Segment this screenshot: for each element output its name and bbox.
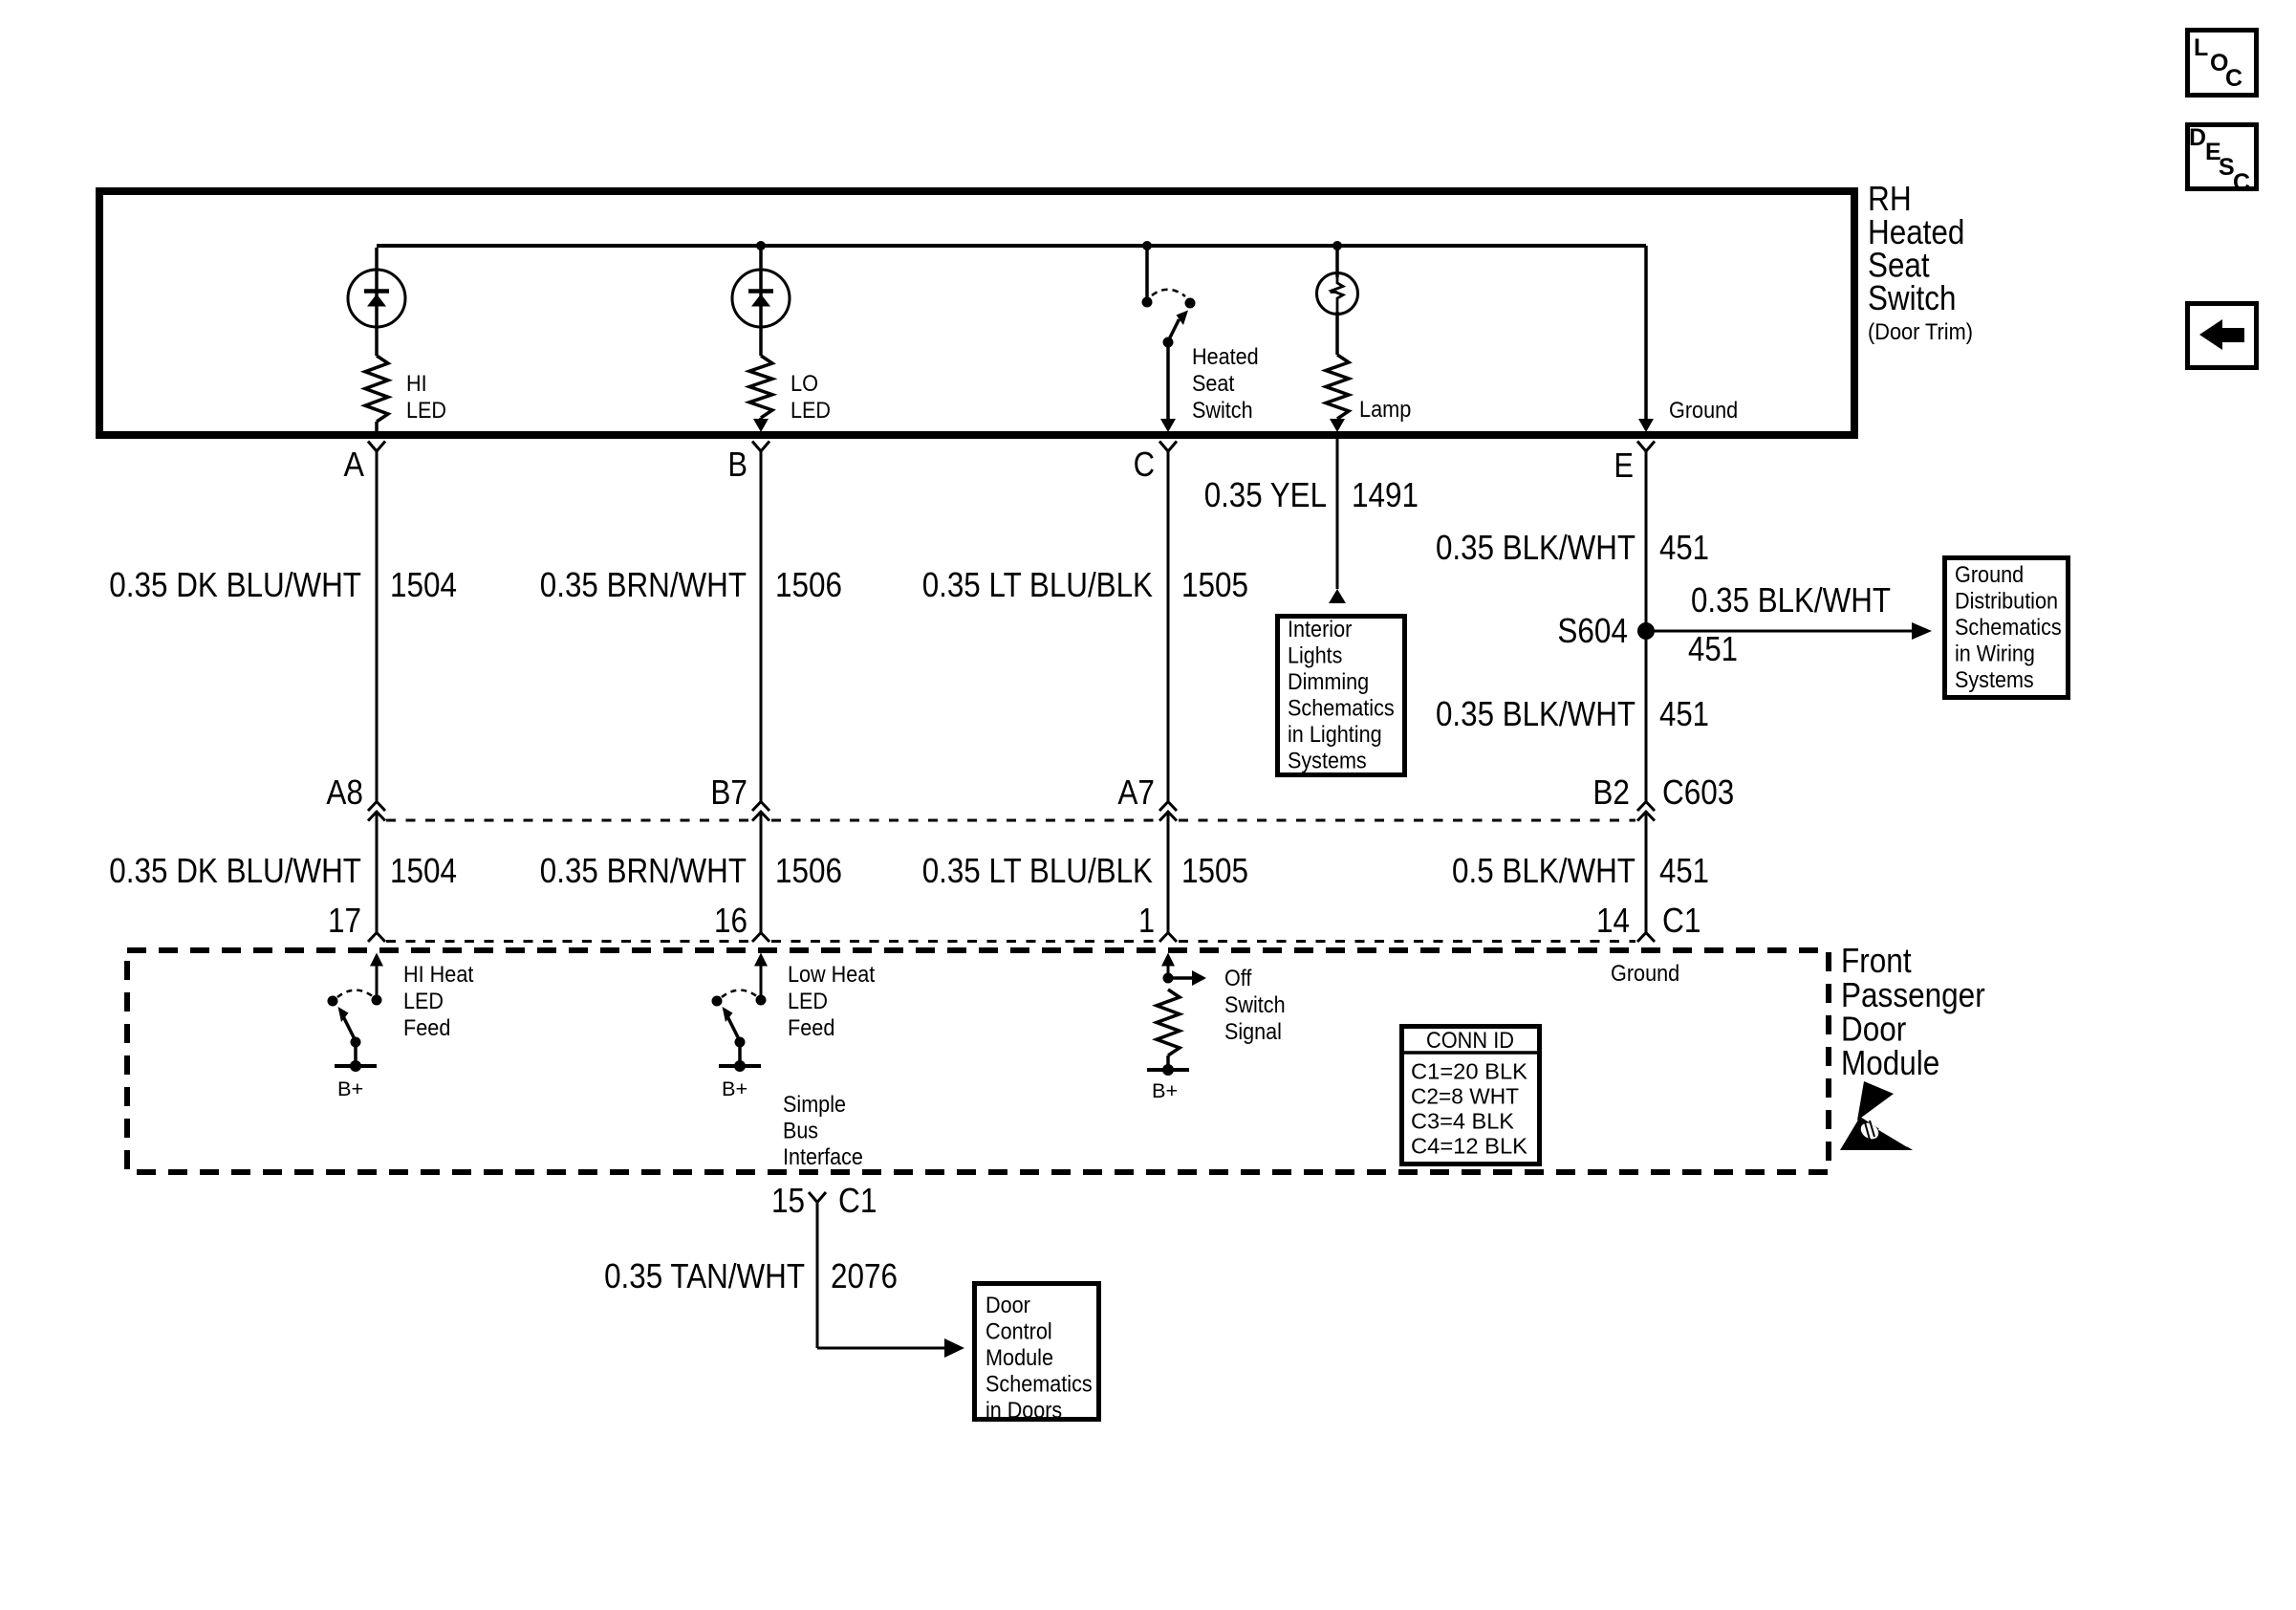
svg-text:16: 16	[714, 901, 747, 940]
svg-text:C2=8 WHT: C2=8 WHT	[1411, 1084, 1519, 1109]
svg-text:LO: LO	[791, 371, 818, 397]
svg-text:0.35 BRN/WHT: 0.35 BRN/WHT	[540, 565, 747, 604]
svg-text:S604: S604	[1557, 611, 1628, 650]
svg-text:1504: 1504	[390, 565, 457, 604]
svg-text:C: C	[2225, 65, 2242, 92]
svg-text:C1: C1	[838, 1181, 877, 1220]
svg-text:A8: A8	[326, 772, 363, 812]
svg-text:A: A	[344, 445, 365, 484]
svg-text:LED: LED	[791, 398, 831, 424]
svg-text:0.35 TAN/WHT: 0.35 TAN/WHT	[604, 1256, 805, 1295]
svg-text:B: B	[727, 445, 747, 484]
svg-text:CONN ID: CONN ID	[1426, 1028, 1514, 1054]
svg-text:B+: B+	[337, 1078, 363, 1100]
svg-text:Ground: Ground	[1611, 961, 1679, 987]
svg-text:0.35 BRN/WHT: 0.35 BRN/WHT	[540, 851, 747, 890]
svg-text:0.5 BLK/WHT: 0.5 BLK/WHT	[1452, 851, 1635, 890]
svg-text:LED: LED	[403, 989, 444, 1014]
svg-text:Switch: Switch	[1224, 992, 1286, 1018]
svg-text:Distribution: Distribution	[1955, 589, 2058, 615]
svg-text:B+: B+	[1152, 1080, 1178, 1102]
svg-text:15: 15	[771, 1181, 805, 1220]
svg-text:451: 451	[1659, 851, 1709, 890]
svg-text:1504: 1504	[390, 851, 457, 890]
svg-text:LED: LED	[406, 398, 446, 424]
svg-text:1491: 1491	[1352, 475, 1419, 514]
svg-text:Low Heat: Low Heat	[788, 962, 876, 988]
svg-text:in Lighting: in Lighting	[1288, 722, 1382, 748]
svg-text:14: 14	[1596, 901, 1630, 940]
svg-text:Bus: Bus	[783, 1119, 818, 1144]
svg-text:0.35 LT BLU/BLK: 0.35 LT BLU/BLK	[922, 565, 1153, 604]
svg-text:Feed: Feed	[403, 1015, 450, 1041]
svg-text:C1=20 BLK: C1=20 BLK	[1411, 1059, 1528, 1084]
svg-text:Schematics: Schematics	[1288, 696, 1395, 722]
svg-text:17: 17	[328, 901, 361, 940]
svg-text:B7: B7	[710, 772, 747, 812]
svg-text:B2: B2	[1592, 772, 1630, 812]
svg-text:Heated: Heated	[1192, 344, 1259, 370]
svg-text:Seat: Seat	[1192, 371, 1235, 397]
svg-text:HI: HI	[406, 371, 427, 397]
svg-text:in Doors: in Doors	[986, 1398, 1062, 1424]
svg-text:Simple: Simple	[783, 1092, 846, 1118]
svg-text:C: C	[1134, 445, 1155, 484]
svg-text:Module: Module	[1841, 1043, 1939, 1082]
svg-text:Lamp: Lamp	[1359, 397, 1411, 423]
svg-text:E: E	[1614, 446, 1634, 485]
svg-text:0.35 LT BLU/BLK: 0.35 LT BLU/BLK	[922, 851, 1153, 890]
svg-text:Dimming: Dimming	[1288, 669, 1369, 695]
svg-text:Systems: Systems	[1288, 749, 1367, 774]
svg-text:C4=12 BLK: C4=12 BLK	[1411, 1134, 1528, 1159]
svg-text:0.35 BLK/WHT: 0.35 BLK/WHT	[1691, 580, 1891, 620]
svg-text:Switch: Switch	[1868, 278, 1956, 317]
svg-text:Schematics: Schematics	[1955, 615, 2062, 641]
svg-text:Interface: Interface	[783, 1144, 863, 1170]
svg-text:Ground: Ground	[1955, 562, 2024, 588]
svg-text:Interior: Interior	[1288, 617, 1352, 642]
svg-text:0.35 DK BLU/WHT: 0.35 DK BLU/WHT	[109, 565, 361, 604]
svg-text:HI Heat: HI Heat	[403, 962, 474, 988]
svg-text:0.35 DK BLU/WHT: 0.35 DK BLU/WHT	[109, 851, 361, 890]
svg-text:LED: LED	[788, 989, 828, 1014]
svg-text:Signal: Signal	[1224, 1019, 1282, 1045]
svg-text:1506: 1506	[775, 851, 842, 890]
svg-text:1505: 1505	[1181, 565, 1248, 604]
svg-text:B+: B+	[722, 1078, 747, 1100]
svg-text:in Wiring: in Wiring	[1955, 642, 2035, 667]
svg-text:(Door Trim): (Door Trim)	[1868, 319, 1973, 345]
svg-text:1505: 1505	[1181, 851, 1248, 890]
svg-text:Systems: Systems	[1955, 667, 2034, 693]
svg-text:A7: A7	[1117, 772, 1155, 812]
svg-text:0.35 YEL: 0.35 YEL	[1204, 475, 1327, 514]
svg-text:D: D	[2189, 124, 2206, 151]
svg-text:451: 451	[1659, 694, 1709, 733]
svg-text:Schematics: Schematics	[986, 1372, 1093, 1398]
svg-text:Control: Control	[986, 1319, 1052, 1345]
svg-text:Front: Front	[1841, 941, 1912, 980]
svg-text:451: 451	[1659, 528, 1709, 567]
svg-text:C1: C1	[1662, 901, 1700, 940]
svg-text:0.35 BLK/WHT: 0.35 BLK/WHT	[1436, 694, 1635, 733]
svg-text:C: C	[2233, 169, 2250, 196]
svg-text:1: 1	[1138, 901, 1155, 940]
svg-text:Switch: Switch	[1192, 398, 1253, 424]
svg-text:2076: 2076	[831, 1256, 898, 1295]
svg-text:1506: 1506	[775, 565, 842, 604]
svg-text:Ground: Ground	[1669, 398, 1738, 424]
svg-text:Off: Off	[1224, 966, 1252, 991]
svg-text:0.35 BLK/WHT: 0.35 BLK/WHT	[1436, 528, 1635, 567]
svg-text:Door: Door	[986, 1293, 1030, 1318]
svg-text:L: L	[2194, 34, 2208, 61]
svg-text:Feed: Feed	[788, 1015, 834, 1041]
svg-text:Lights: Lights	[1288, 643, 1342, 669]
svg-text:C603: C603	[1662, 772, 1734, 812]
svg-text:Module: Module	[986, 1345, 1053, 1371]
svg-text:451: 451	[1688, 629, 1738, 668]
svg-text:C3=4 BLK: C3=4 BLK	[1411, 1109, 1515, 1134]
